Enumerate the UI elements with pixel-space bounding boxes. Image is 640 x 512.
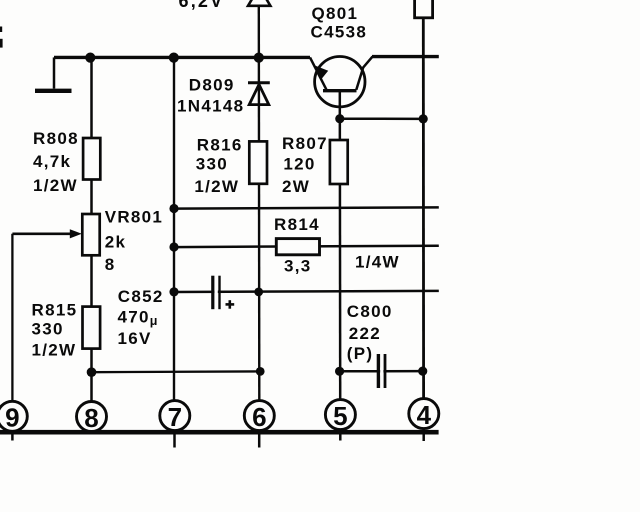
stub below terminal 4 xyxy=(422,429,425,441)
svg-text:8: 8 xyxy=(105,255,116,274)
terminal circle 8 xyxy=(77,402,107,432)
left edge text fragment marks xyxy=(0,27,2,33)
wire: horizontal y=371.8 bottom left (terminal 8 to 6) xyxy=(92,370,261,373)
svg-text:9: 9 xyxy=(5,403,19,433)
VR801 wiper arrowhead xyxy=(70,229,82,238)
stub below terminal 9 xyxy=(11,431,14,441)
potentiometer VR801 box xyxy=(82,214,99,255)
thick bottom bus line xyxy=(0,430,439,435)
wire: vertical column x=174 (terminal 7) xyxy=(173,57,175,403)
junction dot base y=118.7 xyxy=(335,114,344,123)
svg-text:330: 330 xyxy=(32,320,64,339)
wire: horizontal y=208.3 xyxy=(174,207,439,208)
stub below terminal 7 xyxy=(173,433,176,448)
resistor R816 box xyxy=(249,141,267,183)
svg-text:2k: 2k xyxy=(105,232,127,251)
svg-text:1/2W: 1/2W xyxy=(32,340,77,359)
capacitor C852 right plate xyxy=(218,276,220,310)
svg-text:(P): (P) xyxy=(347,344,374,363)
transistor Q1 collector wire with slant xyxy=(356,57,372,90)
svg-text:16V: 16V xyxy=(118,329,152,348)
svg-text:C800: C800 xyxy=(347,302,393,321)
junction dot x=174 y=247 xyxy=(169,242,178,251)
junction dot x=174 y=208.5 xyxy=(169,204,178,213)
wire: main top bus right segment y=56.5 xyxy=(372,55,439,58)
svg-text:R808: R808 xyxy=(33,129,79,148)
svg-text:3,3: 3,3 xyxy=(284,256,312,275)
capacitor C852 gap mask xyxy=(215,288,218,296)
svg-text:7: 7 xyxy=(168,402,182,432)
svg-text:R816: R816 xyxy=(197,136,243,155)
VR801 wiper arrow wire xyxy=(12,232,71,235)
svg-text:D809: D809 xyxy=(189,76,235,95)
svg-text:R815: R815 xyxy=(32,301,78,320)
svg-text:R807: R807 xyxy=(282,134,328,153)
junction dot x=174 y=292 xyxy=(169,287,178,296)
capacitor C800 right plate xyxy=(384,354,387,388)
terminal circle 7 xyxy=(160,401,190,431)
wire: horizontal y=118.7 base to collector column xyxy=(340,117,424,120)
wire: vertical column x=12.4 (wiper to terminal 9) xyxy=(11,234,13,403)
capacitor C852 left plate xyxy=(211,276,214,310)
capacitor C852 plus sign xyxy=(226,303,235,306)
svg-text:330: 330 xyxy=(196,155,228,174)
wire: vertical column x=423.3 (collector/terminal 4) xyxy=(422,16,425,401)
svg-text:1/2W: 1/2W xyxy=(33,176,78,195)
junction dot x=339.6 y=371.3 xyxy=(335,367,344,376)
capacitor C800 gap mask xyxy=(380,368,383,376)
svg-text:120: 120 xyxy=(283,155,315,174)
resistor R807 box xyxy=(330,140,348,184)
resistor R814 box xyxy=(276,239,319,255)
svg-text:2W: 2W xyxy=(282,177,310,196)
wire: vertical column x=258.8 (zener/D809/R816/terminal 6) xyxy=(258,6,261,404)
zener diode top (partially cut) xyxy=(248,0,270,6)
junction dot x=258.7 y=292 xyxy=(254,288,263,297)
svg-text:4: 4 xyxy=(417,400,432,430)
terminal circle 6 xyxy=(244,401,274,431)
svg-text:6: 6 xyxy=(252,402,266,432)
svg-text:470μ: 470μ xyxy=(118,308,158,329)
terminal circle 5 xyxy=(325,400,355,430)
svg-text:5: 5 xyxy=(333,401,347,431)
svg-text:C852: C852 xyxy=(118,287,164,306)
diode D809 triangle xyxy=(249,85,269,105)
svg-text:222: 222 xyxy=(349,324,381,343)
svg-text:6,2V: 6,2V xyxy=(179,0,225,11)
junction dot x=422.7 y=371.1 xyxy=(418,367,427,376)
transistor Q1 emitter wire with slant xyxy=(310,57,327,89)
junction dot bus/ground xyxy=(85,53,95,63)
junction dot collector column y=119 xyxy=(419,114,428,123)
capacitor C800 left plate xyxy=(377,354,380,388)
svg-text:1/4W: 1/4W xyxy=(355,252,400,271)
wire: vertical column x=340 (Q801 base/R807/terminal 5) xyxy=(339,91,342,402)
svg-text:R814: R814 xyxy=(274,215,320,234)
stub below terminal 6 xyxy=(258,433,261,448)
terminal circle 4 xyxy=(409,399,439,429)
wire: vertical column x=91.5 (R808/VR801/R815 chain) xyxy=(90,57,93,403)
wire: horizontal y=291.8 through C852 xyxy=(174,291,439,292)
junction dot bus x=258.8 xyxy=(254,53,264,63)
wire: main top bus left segment y=57 xyxy=(54,56,310,59)
stub below terminal 5 xyxy=(339,430,342,441)
diode D809 cathode bar xyxy=(248,81,270,84)
svg-text:C4538: C4538 xyxy=(311,23,368,42)
svg-text:VR801: VR801 xyxy=(105,208,163,227)
junction dot x=260.2 y=371.4 xyxy=(256,367,265,376)
svg-text:4,7k: 4,7k xyxy=(33,152,71,171)
resistor (top right, cut) box xyxy=(415,0,433,18)
svg-text:1/2W: 1/2W xyxy=(194,177,239,196)
junction dot x=91.5 y=372.2 xyxy=(87,367,97,377)
svg-text:8: 8 xyxy=(84,403,98,433)
ground stub wire xyxy=(53,57,56,88)
svg-text:Q801: Q801 xyxy=(312,4,359,23)
terminal circle 9 xyxy=(0,401,27,431)
transistor Q801 emitter arrowhead xyxy=(315,66,328,80)
svg-text:1N4148: 1N4148 xyxy=(177,96,244,115)
resistor R808 box xyxy=(83,138,100,180)
wire: horizontal y=246.8 through R814 xyxy=(174,246,439,247)
transistor Q801 circle xyxy=(315,56,365,106)
wire: horizontal y=371.3 through C800 xyxy=(340,370,423,373)
resistor R815 box xyxy=(83,307,101,349)
ground bar xyxy=(35,89,72,93)
transistor Q801 base bar xyxy=(323,89,357,92)
junction dot bus x=174 xyxy=(169,53,179,63)
